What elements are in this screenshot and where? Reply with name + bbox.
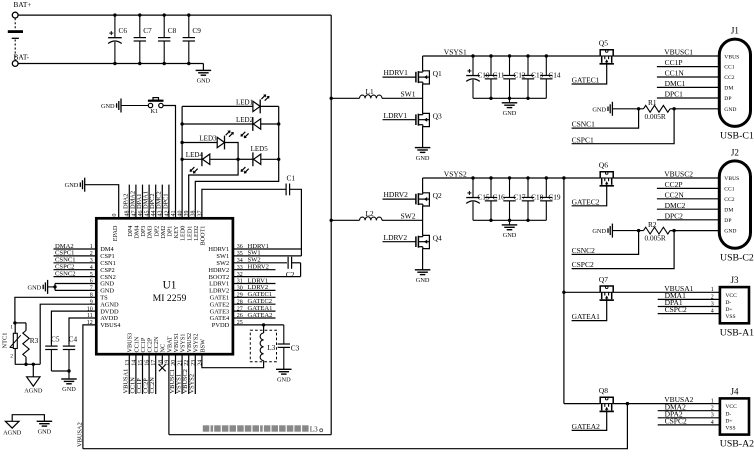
svg-text:D+: D+ [725, 307, 732, 313]
IC U1 left pin 2 CSP1 [90, 251, 115, 260]
wire stub pin 36 [233, 243, 302, 250]
svg-text:DM: DM [724, 86, 733, 92]
wire stub pin 14 net CC1N [129, 354, 136, 394]
wire Q5 gate to GATEC1 [572, 64, 607, 84]
IC U1 right pin 26 GATE4 [210, 313, 243, 322]
svg-text:L2: L2 [366, 209, 374, 218]
wire Q8 gate to GATEA2 [572, 412, 607, 431]
ground GND at C4 [61, 371, 77, 393]
wire stub pin 44 net DPC2 [149, 185, 156, 219]
svg-text:LED5: LED5 [251, 145, 269, 153]
inductor L1 [360, 87, 383, 98]
wire DPC2 to J2 [657, 211, 719, 220]
IC U1 EPAD pin 0 [112, 214, 119, 242]
IC U1 top pin 42 DP1 [164, 211, 173, 237]
svg-text:DP: DP [724, 96, 731, 102]
wire stub pin 31 [233, 277, 276, 284]
resistor R2 [644, 220, 671, 243]
svg-text:22: 22 [184, 360, 190, 366]
IC U1 right pin 31 LDRV1 [209, 279, 243, 288]
wire Q6 gate to GATEC2 [572, 186, 607, 206]
wire stub pin 45 net DMA1 [143, 185, 150, 219]
svg-text:0.005R: 0.005R [645, 112, 666, 121]
svg-text:3: 3 [711, 413, 714, 419]
svg-text:2: 2 [10, 353, 13, 359]
junction dots LED common [180, 122, 183, 161]
wire CSNC2 tap [572, 231, 639, 255]
svg-text:2: 2 [711, 294, 714, 300]
svg-text:Q1: Q1 [433, 69, 442, 78]
node CSNC1 junction [637, 107, 640, 110]
svg-text:VSS: VSS [725, 426, 735, 432]
svg-text:BSW: BSW [199, 339, 206, 353]
svg-text:HDRV1: HDRV1 [384, 68, 409, 77]
svg-text:CSPC2: CSPC2 [665, 305, 687, 314]
connector J2 USB-C2 [719, 147, 754, 263]
svg-text:37: 37 [197, 211, 203, 217]
svg-text:38: 38 [191, 211, 197, 217]
capacitor C5 [45, 334, 60, 371]
IC U1 bottom pin 21 VSYS1 [178, 334, 187, 366]
IC U1 bottom pin 15 CC1P [138, 337, 147, 366]
wire stub pin 46 net DPA1 [136, 185, 143, 219]
wire DPA1 to J3 [658, 298, 720, 307]
wire SW1 node [401, 84, 423, 113]
IC U1 left pin 10 DVDD [87, 306, 119, 315]
wire K1 to KEY pin 41 [163, 106, 175, 219]
svg-text:GND: GND [503, 232, 517, 239]
svg-text:GND: GND [277, 377, 291, 384]
IC U1 bottom pin 22 VBUS2 [184, 333, 193, 366]
wire stub pin 13 net VBUSA1 [123, 354, 130, 394]
IC U1 left pin 8 TS [90, 293, 108, 302]
svg-text:BOOT1: BOOT1 [200, 226, 207, 246]
pushbutton K1 [148, 98, 164, 115]
IC U1 bottom pin 20 VBUS1 [171, 333, 180, 366]
svg-text:GND: GND [503, 110, 517, 117]
svg-text:L3: L3 [267, 343, 275, 352]
IC U1 right pin 27 GATE3 [210, 306, 243, 315]
svg-text:VCC: VCC [725, 404, 737, 410]
capacitor C14 [540, 56, 561, 98]
svg-text:Q5: Q5 [599, 39, 608, 48]
wire stub pin 27 [233, 305, 276, 312]
LED LED3 [199, 130, 233, 149]
wire junction to LED5 [238, 158, 253, 160]
ground GND cap bank 2 [502, 220, 518, 239]
capacitor C2 [286, 257, 295, 279]
wire Q2 drain [422, 178, 424, 193]
wire BOOT1 pin 37 up [202, 189, 286, 218]
wire L1 to SW1 [382, 97, 423, 99]
capacitor C11 [485, 56, 505, 98]
svg-text:VBUS4: VBUS4 [100, 322, 121, 329]
wire AGND-GND tie [12, 415, 44, 422]
wire VBUSA1 to J3 [613, 284, 720, 293]
capacitor C6 [108, 15, 127, 63]
svg-text:1: 1 [10, 325, 13, 331]
wire VSYS2 rail [423, 169, 601, 178]
wire VBUSA2 junction to bottom rail [83, 404, 628, 449]
junction dots cap bank 1 [471, 54, 548, 100]
wire LED3 row left [182, 142, 217, 144]
wire TS pin 8 to NTC [15, 297, 96, 323]
wire stub pin 42 net DPC1 [162, 185, 169, 219]
wire stub pin 4 net CSPC2 [54, 264, 97, 271]
wire stub pin 33 [233, 264, 276, 271]
capacitor C18 [522, 178, 544, 220]
svg-text:CC2N: CC2N [149, 377, 156, 394]
wire stub pin 23 net VSYS2 [189, 354, 196, 394]
wire C5 C4 bottoms [51, 369, 70, 372]
transistor Q7 [599, 275, 614, 300]
svg-text:Q8: Q8 [599, 386, 608, 395]
IC U1 right pin 32 BOOT2 [209, 272, 243, 281]
wire stub pin 1 net DMA2 [54, 243, 97, 250]
wire stub pin 20 net VBUSC1 [169, 354, 176, 394]
svg-text:VBUSC1: VBUSC1 [664, 47, 693, 56]
svg-text:Q7: Q7 [599, 275, 608, 284]
label LDRV2 gate wire [383, 233, 416, 242]
svg-text:0: 0 [112, 214, 118, 217]
svg-text:CC2N: CC2N [665, 190, 685, 199]
ground GND at Q4 [415, 270, 431, 284]
wire stub pin 29 [233, 291, 276, 298]
svg-text:CSNC2: CSNC2 [572, 246, 596, 255]
svg-text:C6: C6 [119, 26, 128, 35]
wire CSPC2 to J4 [658, 417, 720, 426]
ground GND at Q3 [415, 148, 431, 162]
svg-text:20: 20 [171, 360, 177, 366]
IC U1 left pin 3 CSN1 [90, 258, 116, 267]
wire VBAT vertical rail [330, 15, 332, 435]
svg-text:CC2: CC2 [724, 197, 734, 203]
svg-text:C16: C16 [493, 193, 506, 202]
wire stub pin 3 net CSNC1 [54, 257, 97, 264]
wire VBAT bottom run [169, 434, 331, 436]
IC U1 right pin 25 PVDD [212, 320, 243, 329]
svg-text:DPC1: DPC1 [665, 90, 684, 99]
svg-text:CC1P: CC1P [665, 58, 683, 67]
svg-text:DM: DM [724, 207, 733, 213]
svg-text:GND: GND [38, 429, 52, 436]
svg-text:USB-A2: USB-A2 [720, 439, 754, 450]
svg-text:15: 15 [138, 360, 144, 366]
wire VBAT to L1 [330, 97, 360, 100]
svg-text:VBUS: VBUS [724, 176, 739, 182]
svg-text:GND: GND [62, 386, 76, 393]
LED LED2 [236, 116, 261, 138]
wire VBUSC2 to J2 [613, 169, 719, 178]
svg-text:DP: DP [724, 218, 731, 224]
wire GND pins 6-7 tie [53, 284, 96, 291]
wire stub pin 16 net CC2P [143, 354, 150, 394]
ground GND at C3 [276, 367, 292, 384]
svg-text:4: 4 [711, 309, 714, 315]
transistor Q1 [416, 69, 442, 84]
capacitor C10 [466, 56, 490, 98]
wire VBUSC1 to J1 [613, 47, 719, 56]
svg-text:C9: C9 [192, 26, 201, 35]
node LED3/LED4/LED5 junction [236, 158, 239, 161]
wire cap bank 1 bottom rail [473, 97, 546, 99]
transistor Q8 [599, 386, 614, 411]
svg-text:CC1: CC1 [724, 187, 734, 193]
ground GND input [196, 70, 212, 84]
svg-text:LED3: LED3 [199, 135, 217, 143]
capacitor C8 [158, 15, 177, 63]
svg-text:C11: C11 [493, 71, 505, 80]
connector J3 USB-A1 [711, 275, 754, 338]
svg-text:C1: C1 [287, 174, 296, 183]
wire Q7 gate to GATEA1 [572, 300, 607, 320]
svg-text:C5: C5 [51, 334, 60, 343]
IC U1 left pin 6 GND [90, 279, 115, 288]
IC U1 right pin 28 GATE2 [210, 299, 243, 308]
wire stub pin 17 net CC2N [149, 354, 156, 394]
wire VBAT to L2 [330, 219, 360, 222]
wire to GND after C9 [202, 64, 204, 71]
wire AGND pin 9 down [40, 304, 96, 364]
svg-text:0.005R: 0.005R [645, 234, 666, 243]
IC U1 right pin 30 LDRV2 [209, 286, 243, 295]
svg-text:17: 17 [151, 360, 157, 366]
capacitor C12 [503, 56, 526, 98]
wire NTC bottom junction [15, 363, 40, 366]
wire LED4 to junction [210, 158, 238, 160]
wire LED2 row left [182, 123, 253, 125]
thermistor NTC1 [1, 323, 21, 364]
wire VSYS1 rail [423, 47, 601, 56]
wire LED3 to junction column [225, 143, 239, 160]
svg-text:AGND: AGND [3, 430, 22, 437]
IC U1 top pin 40 LED0 [178, 211, 187, 241]
capacitor C3 [278, 325, 290, 367]
svg-text:VSYS1: VSYS1 [444, 47, 467, 56]
svg-text:L1: L1 [366, 87, 374, 96]
IC U1 left pin 9 AGND [90, 299, 119, 308]
svg-text:NTC1: NTC1 [1, 333, 8, 349]
wire cap bank 2 bottom rail [473, 219, 546, 221]
label HDRV1 gate wire [383, 68, 416, 77]
wire BSW pin 24 to L3 [202, 354, 264, 368]
ground GND at EPAD [65, 178, 85, 192]
wire VBAT up to pin19 [168, 354, 170, 435]
wire CSPC1 tap [572, 109, 675, 145]
ground GND pins 6-7 [28, 280, 55, 294]
svg-text:SW1: SW1 [401, 90, 416, 99]
svg-text:LED2: LED2 [236, 116, 254, 124]
svg-text:CC2: CC2 [724, 75, 734, 81]
wire DMC2 to J2 [657, 201, 719, 210]
IC U1 top pin 43 DM2 [158, 211, 167, 239]
IC U1 top pin 47 DM4 [131, 211, 140, 239]
svg-text:GND: GND [416, 155, 430, 162]
IC U1 top pin 44 DP2 [151, 211, 160, 237]
svg-text:GATEC1: GATEC1 [572, 76, 600, 85]
svg-text:HDRV2: HDRV2 [248, 264, 269, 271]
svg-text:D-: D- [725, 300, 731, 306]
wire CC2N to J2 [657, 190, 719, 199]
node CSNC2 junction [637, 229, 640, 232]
wire stub pin 35 [233, 250, 302, 257]
svg-text:C2: C2 [286, 270, 295, 279]
IC U1 left pin 1 DM4 [90, 244, 115, 253]
transistor Q5 [599, 39, 614, 64]
resistor R3 [23, 323, 39, 364]
wire stub pin 25 [233, 324, 284, 326]
svg-text:1: 1 [711, 287, 714, 293]
svg-text:DPC1: DPC1 [162, 193, 169, 209]
svg-text:U1: U1 [163, 280, 177, 292]
transistor Q3 [416, 112, 442, 127]
IC U1 top pin 45 DM3 [145, 211, 154, 239]
wire stub pin 26 [233, 312, 276, 319]
wire EPAD to GND [85, 185, 119, 219]
svg-text:GND: GND [724, 107, 736, 113]
battery BT1 [8, 18, 23, 60]
svg-text:GATEA2: GATEA2 [572, 422, 601, 431]
wire C1 to SW1 stub [290, 189, 302, 256]
label HDRV2 gate wire [383, 190, 416, 199]
svg-text:C8: C8 [168, 26, 177, 35]
svg-text:D-: D- [725, 411, 731, 417]
svg-text:R2: R2 [648, 220, 657, 229]
svg-text:GND: GND [592, 228, 606, 235]
IC U1 bottom pin 16 CC2P [145, 337, 154, 366]
IC U1 bottom pin 14 CC1N [131, 336, 140, 366]
svg-text:Q6: Q6 [599, 161, 608, 170]
IC U1 right pin 35 SW1 [216, 251, 242, 260]
IC U1 left pin 11 AVDD [87, 313, 118, 322]
wire CC2P to J2 [657, 180, 719, 189]
ground GND at R2 [592, 224, 643, 238]
label LDRV1 gate wire [383, 111, 416, 120]
IC U1 bottom pin 24 BSW [197, 339, 206, 366]
wire LED1 row [182, 105, 253, 107]
inductor L2 [360, 209, 383, 220]
wire VSYS to Q8 [564, 403, 600, 405]
transistor Q2 [416, 191, 442, 206]
svg-text:CC1: CC1 [724, 65, 734, 71]
IC U1 bottom pin 19 VBAT [164, 336, 173, 366]
wire CSPC2 tap [572, 231, 675, 270]
wire LED5 to cathode rail [261, 158, 279, 160]
svg-text:PVDD: PVDD [212, 322, 230, 329]
LED LED4 [186, 151, 210, 173]
svg-text:J1: J1 [731, 26, 739, 36]
svg-text:CSPC1: CSPC1 [572, 135, 594, 144]
IC U1 left pin 4 CSP2 [90, 265, 115, 274]
capacitor C4 [63, 334, 78, 371]
svg-text:2: 2 [711, 406, 714, 412]
IC U1 top pin 39 LED1 [184, 211, 193, 241]
IC U1 right pin 29 GATE1 [210, 293, 243, 302]
wire stub pin 22 net VBUSC2 [182, 354, 189, 394]
svg-text:C14: C14 [548, 71, 561, 80]
IC U1 top pin 41 KEY [171, 211, 180, 239]
wire AVDD pin 11 to C4 [69, 318, 96, 344]
svg-text:AGND: AGND [24, 388, 43, 395]
svg-text:GATEA1: GATEA1 [572, 312, 601, 321]
wire stub pin 30 [233, 284, 276, 291]
IC U1 bottom pin 23 VSYS2 [191, 334, 200, 366]
svg-text:GATEC2: GATEC2 [572, 197, 600, 206]
svg-text:LDRV1: LDRV1 [384, 111, 408, 120]
svg-text:LED4: LED4 [186, 151, 204, 159]
junction dots cathode rail [277, 122, 280, 161]
svg-text:J3: J3 [730, 275, 739, 285]
svg-text:L3: L3 [310, 425, 318, 433]
svg-text:Q4: Q4 [433, 234, 442, 243]
ground GND tie symbol [37, 421, 53, 435]
svg-text:14: 14 [131, 360, 137, 366]
wire VSYS rail to Q7 Q8 [562, 176, 565, 403]
svg-text:CSPC2: CSPC2 [572, 260, 594, 269]
svg-text:39: 39 [184, 211, 190, 217]
svg-text:GND: GND [101, 103, 115, 110]
wire BAT- bottom rail [18, 63, 203, 65]
wire stub pin 15 net CC1P [136, 354, 143, 394]
transistor Q6 [599, 161, 614, 186]
svg-text:GND: GND [724, 229, 736, 235]
svg-text:C19: C19 [548, 193, 561, 202]
LED LED1 [236, 94, 270, 113]
svg-text:GATEA2: GATEA2 [248, 312, 273, 319]
svg-text:D+: D+ [725, 418, 732, 424]
svg-text:HDRV2: HDRV2 [384, 190, 409, 199]
wire VSYS to Q7 [564, 291, 600, 293]
svg-text:21: 21 [178, 360, 184, 366]
IC U1 left pin 5 CSN2 [90, 272, 116, 281]
svg-text:C4: C4 [69, 334, 78, 343]
svg-text:MI 2259: MI 2259 [153, 293, 187, 304]
wire DPA2 to J4 [658, 409, 720, 418]
ground GND cap bank 1 [502, 98, 518, 117]
transistor Q4 [416, 234, 442, 249]
wire DMA1 to J3 [658, 291, 720, 300]
ground GND at R1 [592, 102, 643, 116]
svg-text:K1: K1 [151, 108, 159, 115]
wire LED common line pin 40 [181, 106, 183, 218]
wire R1 to J1 GND [670, 107, 719, 110]
IC U1 right pin 33 HDRV2 [208, 265, 242, 274]
IC U1 top pin 48 DP4 [125, 211, 134, 237]
resistor R1 [644, 98, 671, 121]
svg-text:GND: GND [592, 106, 606, 113]
terminal BAT- [12, 53, 29, 67]
wire CSNC1 tap [572, 109, 639, 129]
note text (Chinese): choose whether to use L3 [203, 425, 309, 431]
svg-text:DPC2: DPC2 [665, 211, 684, 220]
wire stub pin 21 net VSYS1 [176, 354, 183, 394]
svg-text:41: 41 [171, 211, 177, 217]
svg-text:GND: GND [28, 284, 42, 291]
IC U1 bottom pin 18 NC [158, 344, 167, 366]
connector J1 USB-C1 [719, 26, 754, 142]
svg-text:C3: C3 [291, 344, 300, 353]
svg-text:LDRV2: LDRV2 [384, 233, 408, 242]
capacitor C16 [485, 178, 505, 220]
svg-text:1: 1 [711, 399, 714, 405]
svg-text:USB-C1: USB-C1 [720, 131, 754, 142]
inductor L3 (optional, dashed box) [250, 325, 276, 362]
LED LED5 [241, 145, 269, 174]
wire LED cathode rail to pin 38 [195, 106, 278, 218]
ground GND at K1 [101, 99, 148, 113]
svg-text:DMC1: DMC1 [665, 79, 686, 88]
IC U1 right pin 36 HDRV1 [208, 244, 242, 253]
